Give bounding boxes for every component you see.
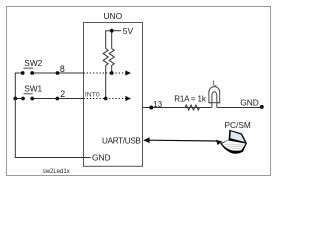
arrow pin8 internal [125, 70, 131, 75]
svg-text:SW2: SW2 [24, 58, 42, 68]
node 5V [110, 29, 114, 33]
switch SW2 [21, 58, 43, 75]
svg-text:5V: 5V [123, 26, 134, 36]
svg-text:8: 8 [60, 64, 65, 74]
svg-text:2: 2 [60, 89, 65, 99]
arrow UART left [143, 137, 149, 143]
arrow INT0 internal [125, 96, 131, 101]
svg-text:PC/SM: PC/SM [225, 120, 251, 130]
node pin 13 [149, 106, 153, 110]
op-amp U1 box UNO [84, 23, 143, 167]
svg-text:UNO: UNO [103, 11, 122, 21]
wire left rail down to GND [15, 99, 90, 158]
frame border [7, 7, 271, 176]
wire dashed INT0 internal [84, 98, 126, 100]
resistor pullup left (to INT0) [103, 31, 110, 99]
svg-text:13: 13 [153, 100, 162, 109]
svg-text:GND: GND [92, 152, 111, 162]
node left rail / SW1 junction [13, 97, 17, 101]
switch SW1 [21, 83, 42, 100]
wire UART double arrow [148, 139, 218, 142]
wire SW1 to pin 2 [34, 98, 84, 100]
wire dashed pin8 internal [84, 72, 126, 74]
wire SW2 to pin 8 [34, 72, 84, 74]
arrow UART right [216, 140, 223, 145]
node pin 8 [56, 71, 60, 75]
node GND terminal [260, 105, 264, 109]
svg-text:INT0: INT0 [85, 91, 100, 98]
svg-text:GND: GND [240, 98, 259, 108]
svg-text:R1A = 1k: R1A = 1k [174, 95, 207, 104]
wire SW2 row left [15, 73, 21, 99]
laptop icon PC [220, 130, 247, 154]
node pullup/pin8 junction [110, 71, 114, 75]
node pullup/INT0 junction [104, 97, 108, 101]
wire pin 13 row [143, 107, 212, 109]
wire 5V stub [114, 30, 122, 32]
wire lamp to GND [217, 107, 262, 109]
svg-text:UART/USB: UART/USB [102, 136, 141, 145]
wire SW1 row left [15, 98, 21, 100]
resistor pullup right (to pin 8) [109, 33, 114, 74]
node pin 2 [56, 97, 60, 101]
resistor R1A [185, 105, 200, 110]
svg-text:sw2Led1x: sw2Led1x [43, 169, 70, 175]
svg-text:SW1: SW1 [24, 83, 42, 93]
lamp L bulb [209, 87, 220, 108]
